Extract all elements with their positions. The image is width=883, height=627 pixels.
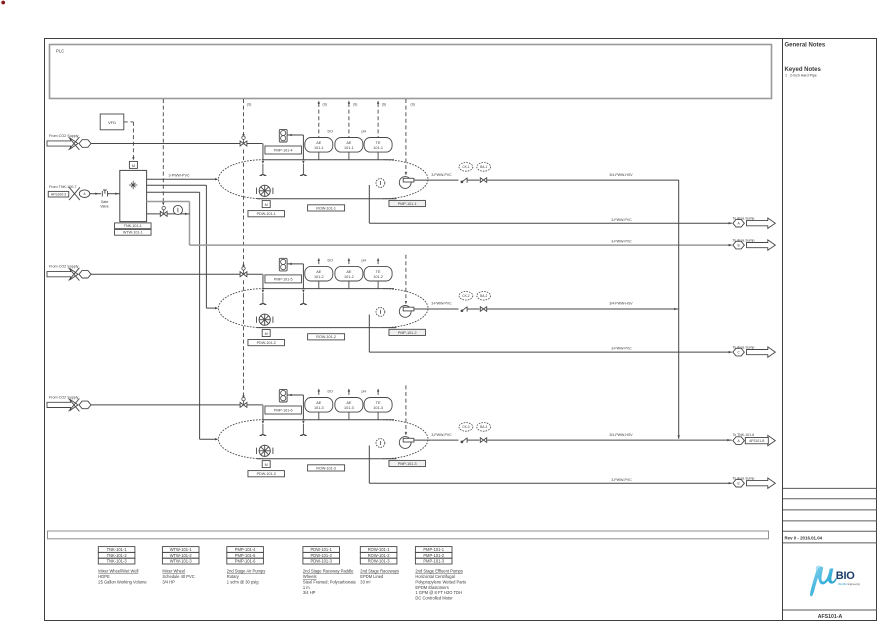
CO2/air sparger train 3	[300, 431, 307, 436]
pipe between valves	[468, 308, 480, 310]
instrument signal wire stubs (dashed)	[318, 258, 320, 266]
CO2/air sparger train 1	[300, 171, 307, 176]
svg-text:25 Gallon Working Volume: 25 Gallon Working Volume	[98, 579, 147, 584]
svg-text:BIO: BIO	[836, 570, 856, 582]
DO analyzer AE 101-1	[305, 138, 333, 153]
air pump PMP-101-5	[279, 258, 287, 271]
svg-text:AE: AE	[346, 270, 352, 274]
ball valve BA-1	[480, 178, 486, 183]
svg-text:TNK-101-2: TNK-101-2	[107, 553, 128, 558]
svg-text:ROW-101-2: ROW-101-2	[316, 335, 336, 339]
svg-text:3/4 HP: 3/4 HP	[303, 590, 316, 595]
svg-text:101-2: 101-2	[314, 275, 324, 279]
exit to area sump B	[733, 239, 755, 243]
svg-text:TE: TE	[376, 270, 381, 274]
instrument probe stems	[319, 412, 378, 420]
svg-text:ROW-101-2: ROW-101-2	[368, 553, 390, 558]
svg-text:PDW-101-2: PDW-101-2	[257, 341, 276, 345]
effluent pump PMP-101-2	[399, 306, 414, 318]
raceway top water line / air header	[263, 159, 394, 161]
pH analyzer AE 101-1	[335, 138, 363, 153]
svg-text:PDW-101-1: PDW-101-1	[311, 547, 333, 552]
pipe 3-PWW-PVC pump discharge train 3	[414, 433, 459, 440]
label ROW-101-1	[308, 205, 345, 211]
ball valve BA-2	[480, 307, 486, 312]
CO2 entry hollow arrow	[47, 138, 78, 148]
raceway top water line / air header	[263, 288, 394, 290]
svg-text:101-1: 101-1	[344, 146, 354, 150]
svg-text:PMP-101-1: PMP-101-1	[423, 547, 444, 552]
svg-text:101-3: 101-3	[373, 406, 383, 410]
CO2 solenoid valve train 2	[240, 267, 247, 277]
svg-text:3/4-PWW-HSV: 3/4-PWW-HSV	[609, 433, 633, 437]
CO2 entry hollow arrow	[47, 400, 78, 410]
svg-text:DC Controlled Motor: DC Controlled Motor	[415, 596, 453, 601]
svg-text:3-PWW-PVC: 3-PWW-PVC	[611, 478, 632, 482]
signal wire VFD to mixer motor (dashed)	[124, 122, 135, 160]
tag bubble A	[79, 190, 89, 198]
harvest header pipe vertical	[674, 180, 680, 439]
mixer motor M	[129, 161, 137, 168]
svg-text:3-PWW-PVC: 3-PWW-PVC	[611, 347, 632, 351]
raceway pond ROW-101-2 (dashed outline)	[219, 289, 429, 328]
svg-text:DO: DO	[328, 130, 334, 134]
tank label TNK-101-1	[115, 223, 152, 229]
svg-text:TNK-101-1: TNK-101-1	[107, 547, 128, 552]
DO analyzer AE 101-2	[305, 266, 333, 281]
wire gate valve to tank	[108, 193, 120, 195]
paddle wheel PDW-101-1	[257, 185, 273, 196]
legend air pumps	[227, 547, 265, 585]
CO2 pipe to solenoid valve (train 3)	[91, 404, 240, 406]
pipe 3-PWW-PVC tank to raceway ROW-101-1	[147, 174, 219, 181]
label PDW-101-2	[248, 340, 285, 346]
svg-text:PDW-101-1: PDW-101-1	[257, 212, 276, 216]
CO2 entry crossing symbol	[69, 137, 80, 150]
svg-text:3/4-PWW-HSV: 3/4-PWW-HSV	[609, 302, 633, 306]
bottom separator bar	[48, 531, 769, 539]
label PDW-101-1	[248, 211, 285, 217]
label PMP-101-3	[389, 460, 426, 466]
temperature element TE 101-1	[364, 138, 392, 153]
label PMP-101-6	[265, 406, 302, 414]
pipe 3/4-PWW-HSV train 2	[487, 302, 679, 309]
exit hollow arrow to TNK-101-6	[747, 435, 776, 445]
label ROW-101-3	[308, 465, 345, 471]
svg-text:EPDM Elastomers: EPDM Elastomers	[415, 585, 448, 590]
temperature element TE 101-2	[364, 266, 392, 281]
svg-text:EPDM Lined: EPDM Lined	[360, 574, 384, 579]
svg-text:AE: AE	[316, 141, 322, 145]
svg-text:PMP-101-4: PMP-101-4	[274, 148, 293, 152]
svg-text:General Notes: General Notes	[785, 43, 826, 49]
svg-text:WTW-101-2: WTW-101-2	[170, 553, 193, 558]
CO2 pipe to solenoid valve (train 2)	[91, 273, 240, 275]
CO2/air sparger train 1	[260, 171, 267, 176]
pipe 3/4-PWW-HSV train 1	[487, 173, 679, 180]
pipe between valves	[468, 179, 480, 181]
svg-text:TNK-101-3: TNK-101-3	[107, 559, 128, 564]
legend mixer tanks	[98, 547, 147, 585]
svg-text:Horizontal Centrifugal: Horizontal Centrifugal	[415, 574, 454, 579]
pump speed signal wire stub (dashed)	[405, 255, 407, 305]
CO2 pipe valve to sparger drop (train 3)	[247, 405, 263, 420]
svg-text:PMP-101-5: PMP-101-5	[235, 553, 256, 558]
svg-text:101-1: 101-1	[314, 146, 324, 150]
svg-text:DO: DO	[328, 259, 334, 263]
VFD box	[100, 114, 124, 130]
drain pipe raceway 1 to sump A	[369, 185, 732, 224]
label PMP-101-5	[265, 275, 302, 283]
signal wire PLC to VFD/M mixer (dashed)	[162, 99, 164, 204]
CO2 pipe valve to sparger drop (train 2)	[247, 274, 263, 289]
CO2 entry tag hexagon	[79, 401, 91, 409]
CO2 solenoid valve train 3	[240, 397, 247, 407]
entry crossing symbol	[69, 187, 80, 200]
svg-text:WTW-101-1: WTW-101-1	[123, 231, 143, 235]
svg-text:TE: TE	[376, 401, 381, 405]
instrument probe stems	[319, 152, 378, 160]
svg-text:1 GPM @ 8 FT H2O TDH: 1 GPM @ 8 FT H2O TDH	[415, 590, 462, 595]
svg-text:Schedule 40 PVC: Schedule 40 PVC	[162, 574, 194, 579]
svg-text:From CO2 Supply: From CO2 Supply	[49, 395, 79, 399]
svg-text:pH: pH	[362, 130, 367, 134]
svg-text:PMP-101-2: PMP-101-2	[398, 331, 417, 335]
CO2 pipe to solenoid valve (train 1)	[91, 143, 240, 145]
svg-text:AFS101-B: AFS101-B	[749, 439, 765, 443]
svg-text:ROW-101-1: ROW-101-1	[316, 206, 336, 210]
svg-text:3-PWW-PVC: 3-PWW-PVC	[431, 302, 452, 306]
legend raceways	[360, 547, 399, 585]
svg-text:From CO2 Supply: From CO2 Supply	[49, 265, 79, 269]
svg-text:Valve: Valve	[100, 205, 109, 209]
drain pipe raceway 2 to sump C	[369, 315, 732, 354]
svg-text:2nd Stage Air Pumps: 2nd Stage Air Pumps	[227, 569, 265, 574]
svg-text:Mixer Wheel: Mixer Wheel	[162, 569, 185, 574]
level gauge (dashed circle) train 2	[376, 308, 385, 317]
svg-text:ROW-101-1: ROW-101-1	[368, 547, 390, 552]
exit to area sump A	[733, 217, 755, 221]
CO2/air sparger train 2	[260, 300, 267, 305]
level gauge (dashed circle) train 3	[376, 439, 385, 448]
svg-text:1 scfm @ 30 psig: 1 scfm @ 30 psig	[227, 579, 259, 584]
DO analyzer AE 101-3	[305, 398, 333, 413]
tank label WTW-101-1	[115, 229, 152, 235]
instrument signal wires to PLC (dashed)	[318, 101, 320, 138]
svg-text:1 m: 1 m	[303, 585, 310, 590]
pipe between valves	[468, 439, 480, 441]
svg-text:101-1: 101-1	[373, 146, 383, 150]
CO2 entry crossing symbol	[69, 268, 80, 281]
mixer impeller	[129, 181, 137, 189]
svg-text:3-PWW-PVC: 3-PWW-PVC	[611, 240, 632, 244]
svg-text:Rotary: Rotary	[227, 574, 240, 579]
svg-text:101-2: 101-2	[373, 275, 383, 279]
svg-text:CK-2: CK-2	[462, 294, 469, 298]
raceway bottom edge	[257, 198, 397, 200]
svg-text:PMP-101-4: PMP-101-4	[235, 547, 256, 552]
svg-text:2nd Stage Raceway Paddle: 2nd Stage Raceway Paddle	[303, 569, 354, 574]
pipe 3-PWW-PVC pump discharge train 1	[414, 173, 459, 180]
svg-text:2nd Stage Raceways: 2nd Stage Raceways	[360, 569, 399, 574]
svg-text:33 m²: 33 m²	[360, 579, 371, 584]
svg-text:3-PWW-PVC: 3-PWW-PVC	[169, 174, 190, 178]
reference tag AFS100-3	[48, 191, 69, 197]
drain pipe raceway 3 to sump E	[369, 446, 732, 485]
signal wire PLC to CO2 solenoid valves x=243.5 (dashed)	[243, 99, 245, 136]
svg-text:1 2-inch Hard Pipe: 1 2-inch Hard Pipe	[785, 74, 817, 78]
instrument probe stems	[319, 281, 378, 289]
exit to area sump E	[733, 477, 755, 481]
pH analyzer AE 101-2	[335, 266, 363, 281]
svg-text:PDW-101-3: PDW-101-3	[257, 472, 276, 476]
label ROW-101-2	[308, 334, 345, 340]
svg-text:PDW-101-2: PDW-101-2	[311, 553, 333, 558]
raceway bottom edge	[257, 458, 397, 460]
svg-text:From TNK-100-7: From TNK-100-7	[49, 185, 77, 189]
svg-text:BA-3: BA-3	[480, 425, 487, 429]
svg-text:PMP-101-2: PMP-101-2	[423, 553, 444, 558]
paddle wheel PDW-101-2	[257, 314, 273, 325]
sump header B label	[611, 240, 731, 247]
svg-text:WTW-101-1: WTW-101-1	[170, 547, 193, 552]
svg-text:From CO2 Supply: From CO2 Supply	[49, 134, 79, 138]
pipe to TNK-101-6 exit	[679, 433, 755, 441]
svg-text:DO: DO	[328, 390, 334, 394]
svg-text:M: M	[132, 164, 135, 168]
label PMP-101-4	[265, 146, 302, 154]
svg-text:PMP-101-3: PMP-101-3	[423, 559, 444, 564]
CO2 entry hollow arrow	[47, 269, 78, 279]
paddle wheel PDW-101-3	[257, 445, 273, 456]
svg-text:101-3: 101-3	[344, 406, 354, 410]
tag CK-2	[459, 292, 473, 301]
raceway pond ROW-101-1 (dashed outline)	[219, 160, 429, 199]
svg-text:Rev 0 - 2016.01.04: Rev 0 - 2016.01.04	[785, 536, 823, 541]
pipe tank to raceway ROW-101-3	[147, 192, 219, 440]
svg-text:AE: AE	[316, 270, 322, 274]
svg-text:AE: AE	[346, 401, 352, 405]
svg-text:CK-3: CK-3	[462, 425, 469, 429]
pipe 3-PWW-PVC pump discharge train 2	[414, 302, 459, 309]
svg-text:Mixer Wheel/Wet Well: Mixer Wheel/Wet Well	[98, 569, 138, 574]
entry From CO2 Supply (train 2)	[49, 265, 79, 269]
svg-text:BA-2: BA-2	[480, 294, 487, 298]
tag CK-3	[459, 423, 473, 432]
mixer tank TNK-101-1	[120, 170, 147, 221]
svg-text:pH: pH	[362, 390, 367, 394]
svg-text:PDW-101-3: PDW-101-3	[311, 559, 333, 564]
paddle wheel motor M train 1	[262, 201, 270, 208]
svg-text:3-PWW-PVC: 3-PWW-PVC	[431, 173, 452, 177]
svg-text:PMP-101-1: PMP-101-1	[398, 202, 417, 206]
red marker dot	[1, 1, 5, 5]
pump speed signal wire (dashed)	[405, 99, 407, 175]
instrument signal wire stubs (dashed)	[318, 388, 320, 397]
raceway pond ROW-101-3 (dashed outline)	[219, 420, 429, 459]
reference tag AFS101-B	[745, 437, 768, 443]
raceway top water line / air header	[263, 419, 394, 421]
air pump PMP-101-6	[279, 389, 287, 402]
svg-text:AE: AE	[316, 401, 322, 405]
check valve CK-1	[461, 178, 467, 183]
svg-text:HDPE: HDPE	[98, 574, 110, 579]
svg-text:M: M	[265, 203, 268, 207]
svg-text:PMP-101-3: PMP-101-3	[398, 462, 417, 466]
svg-text:3/4-PWW-HSV: 3/4-PWW-HSV	[609, 173, 633, 177]
paddle wheel motor M train 3	[262, 461, 270, 468]
air pipe pump to sparger	[287, 134, 303, 160]
svg-text:CK-1: CK-1	[462, 165, 469, 169]
air pipe pump to sparger	[287, 263, 303, 289]
svg-text:TNK-101-1: TNK-101-1	[124, 224, 142, 228]
CO2/air sparger train 2	[300, 300, 307, 305]
svg-text:(S): (S)	[247, 103, 251, 107]
legend effluent pumps	[415, 547, 466, 601]
air pipe pump to sparger	[287, 394, 303, 420]
svg-text:Polypropylene Wetted Parts: Polypropylene Wetted Parts	[415, 579, 466, 584]
tank drain pipe with solenoid valve	[147, 213, 190, 215]
CO2 entry tag hexagon	[79, 140, 91, 148]
svg-text:pH: pH	[362, 259, 367, 263]
CO2/air sparger train 3	[260, 431, 267, 436]
svg-text:3-PWW-PVC: 3-PWW-PVC	[431, 433, 452, 437]
svg-text:101-3: 101-3	[314, 406, 324, 410]
entry From CO2 Supply (train 1)	[49, 134, 79, 138]
svg-text:Keyed Notes: Keyed Notes	[785, 67, 822, 73]
check valve CK-2	[461, 306, 467, 311]
air pump PMP-101-4	[279, 129, 287, 142]
svg-text:Steel Framed; Polycarbonate: Steel Framed; Polycarbonate	[303, 579, 357, 584]
check valve CK-3	[461, 438, 467, 443]
label PDW-101-3	[248, 471, 285, 477]
temperature element TE 101-3	[364, 398, 392, 413]
pump speed signal wire stub (dashed)	[405, 385, 407, 435]
svg-text:2nd Stage Effluent Pumps: 2nd Stage Effluent Pumps	[415, 569, 463, 574]
raceway bottom edge	[257, 327, 397, 329]
title block row lines	[783, 487, 877, 489]
svg-text:AFS101-A: AFS101-A	[818, 614, 843, 620]
flow indicator circle	[173, 205, 182, 214]
svg-text:PMP-101-5: PMP-101-5	[274, 277, 293, 281]
svg-text:M: M	[265, 463, 268, 467]
paddle wheel motor M train 2	[262, 330, 270, 337]
svg-text:PMP-101-6: PMP-101-6	[235, 559, 256, 564]
entry From CO2 Supply (train 3)	[49, 395, 79, 399]
svg-text:WTW-101-3: WTW-101-3	[170, 559, 193, 564]
label PMP-101-2	[389, 329, 426, 335]
effluent pump PMP-101-1	[399, 177, 414, 189]
legend mixer wheels	[162, 547, 199, 585]
svg-text:3/4 HP: 3/4 HP	[162, 579, 175, 584]
svg-text:BA-1: BA-1	[480, 165, 487, 169]
legend paddle wheels	[303, 547, 357, 596]
effluent pump PMP-101-3	[399, 437, 414, 449]
svg-text:Gate: Gate	[101, 200, 109, 204]
ball valve BA-3	[480, 438, 486, 443]
pipe 3/4-PWW-HSV train 3	[487, 433, 679, 440]
svg-text:(S): (S)	[411, 103, 415, 107]
svg-text:(S): (S)	[353, 103, 357, 107]
entry line From TNK-100-7	[49, 185, 77, 189]
pH analyzer AE 101-3	[335, 398, 363, 413]
svg-text:Wheels: Wheels	[303, 574, 317, 579]
svg-text:MicroBio Engineering: MicroBio Engineering	[838, 583, 861, 586]
pipe tank to raceway ROW-101-2	[147, 185, 219, 309]
CO2 entry tag hexagon	[79, 270, 91, 278]
PLC enclosure box	[50, 45, 772, 99]
gate valve	[102, 190, 107, 197]
title block divider	[782, 39, 784, 621]
tag CK-1	[459, 163, 473, 172]
svg-text:(S): (S)	[382, 103, 386, 107]
uBIO logo	[810, 566, 860, 597]
exit to area sump C	[733, 346, 755, 350]
CO2 pipe valve to sparger drop (train 1)	[247, 144, 263, 160]
svg-text:TE: TE	[376, 141, 381, 145]
svg-text:(S): (S)	[323, 103, 327, 107]
wire from tag A to gate valve	[90, 193, 101, 195]
level gauge (dashed circle) train 1	[376, 179, 385, 188]
svg-text:3-PWW-PVC: 3-PWW-PVC	[611, 218, 632, 222]
solenoid valve on tank drain	[160, 206, 167, 216]
exit tag hexagon A	[733, 437, 745, 445]
tank overflow pipe (gray) to sump header B	[147, 202, 732, 246]
svg-text:ROW-101-3: ROW-101-3	[368, 559, 390, 564]
CO2 solenoid valve train 1	[240, 136, 247, 146]
svg-text:PLC: PLC	[56, 49, 64, 54]
svg-text:AFS100-3: AFS100-3	[51, 193, 66, 197]
label PMP-101-1	[389, 200, 426, 206]
svg-text:ROW-101-3: ROW-101-3	[316, 466, 336, 470]
svg-text:VFD: VFD	[108, 120, 116, 125]
CO2 entry crossing symbol	[69, 399, 80, 412]
svg-text:101-2: 101-2	[344, 275, 354, 279]
svg-text:PMP-101-6: PMP-101-6	[274, 408, 293, 412]
svg-text:AE: AE	[346, 141, 352, 145]
svg-text:M: M	[265, 332, 268, 336]
